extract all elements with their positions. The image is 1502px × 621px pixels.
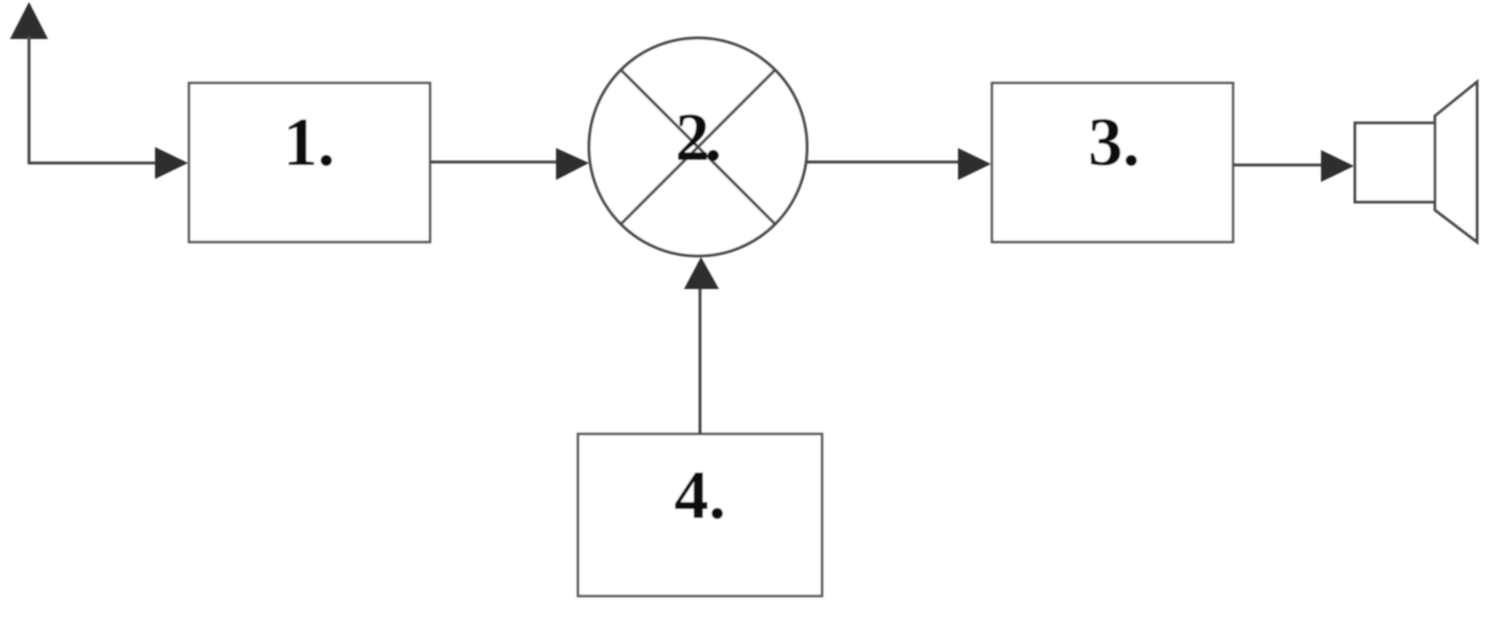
box 1	[189, 83, 430, 242]
box 3	[992, 83, 1233, 242]
speaker LS1 horn	[1435, 82, 1477, 242]
svg-text:4.: 4.	[674, 457, 726, 533]
arrowhead up into mixer	[684, 257, 719, 289]
wire antenna to box 1	[28, 162, 158, 165]
arrowhead into speaker	[1321, 150, 1354, 182]
antenna vertical wire	[28, 36, 31, 164]
mixer cross line 2	[621, 70, 775, 224]
arrowhead into box 1	[155, 147, 188, 179]
wire box 1 to mixer	[430, 161, 558, 164]
svg-text:3.: 3.	[1088, 104, 1140, 180]
svg-text:1.: 1.	[283, 104, 335, 180]
antenna arrowhead up	[10, 2, 48, 39]
box 4	[578, 434, 822, 596]
wire box 4 to mixer	[699, 288, 702, 434]
svg-text:2.: 2.	[675, 99, 720, 175]
wire mixer to box 3	[806, 161, 960, 164]
wire box 3 to speaker	[1233, 164, 1323, 167]
arrowhead into mixer	[556, 148, 589, 180]
mixer cross line 1	[621, 70, 775, 224]
mixer U2 circle	[589, 38, 807, 256]
speaker LS1 driver box	[1355, 123, 1436, 202]
arrowhead into box 3	[958, 148, 991, 180]
